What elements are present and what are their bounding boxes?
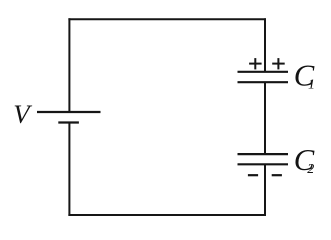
C1 polarity plus left xyxy=(249,58,262,69)
wire left upper xyxy=(68,18,70,112)
label C1 xyxy=(294,59,315,93)
svg-text:1: 1 xyxy=(308,77,315,92)
C2 top plate xyxy=(238,153,289,155)
C2 polarity minus right xyxy=(272,174,282,176)
svg-text:V: V xyxy=(13,99,32,129)
battery short plate (negative) xyxy=(58,121,79,123)
label C2 xyxy=(294,143,315,177)
C1 bottom plate xyxy=(238,81,289,83)
wire top xyxy=(68,18,266,20)
C2 polarity minus left xyxy=(248,174,258,176)
wire bottom xyxy=(68,214,266,216)
wire right upper xyxy=(264,18,266,72)
wire right lower xyxy=(264,164,266,216)
C1 polarity plus right xyxy=(272,58,285,69)
wire right middle xyxy=(264,82,266,154)
svg-text:2: 2 xyxy=(307,162,314,177)
battery V1 xyxy=(37,112,101,123)
C2 bottom plate xyxy=(238,163,289,165)
capacitor C1 xyxy=(238,72,289,82)
battery long plate (positive) xyxy=(37,111,101,113)
C1 top plate xyxy=(238,71,289,73)
wire left lower xyxy=(68,123,70,217)
capacitor C2 xyxy=(238,154,289,164)
